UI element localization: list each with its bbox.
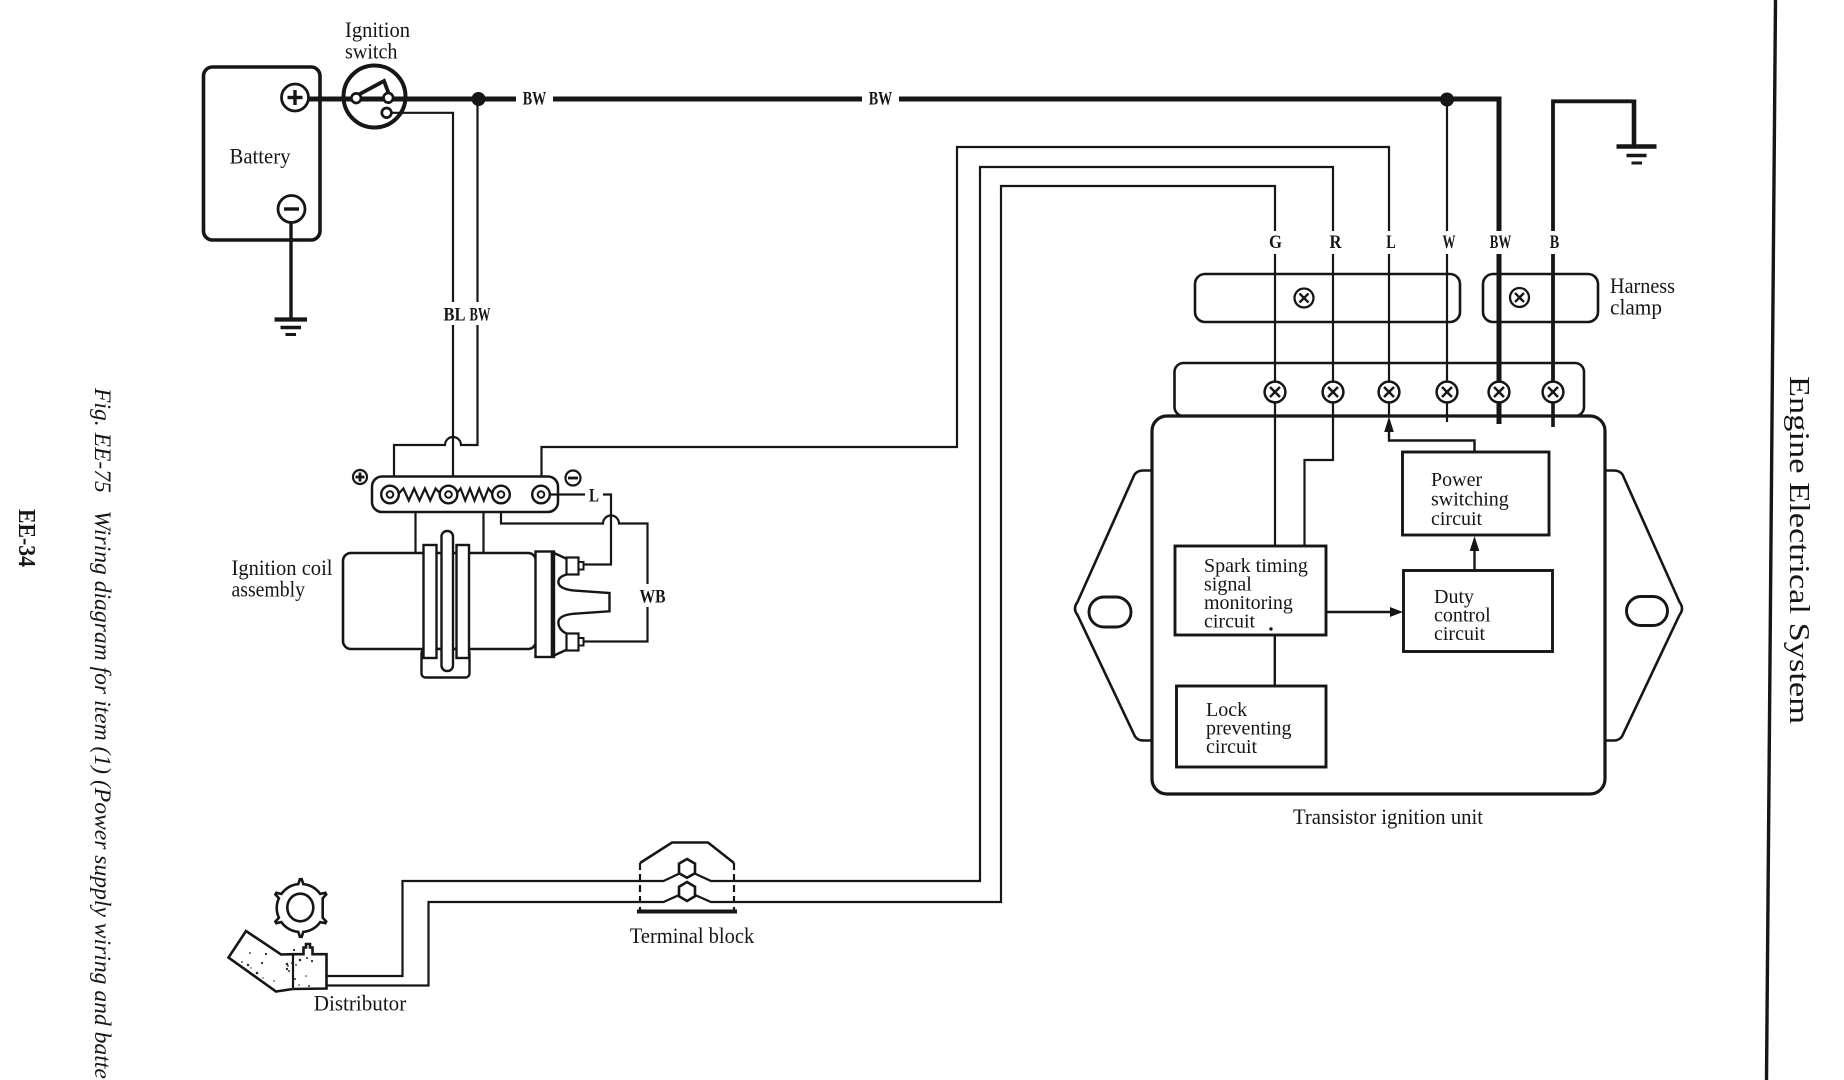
label: BW on main line (second) [862,87,899,109]
svg-text:BW: BW [470,306,491,326]
wire: BW thick vertical down to unit BW terminal [1497,99,1502,382]
svg-text:Transistor ignition unit: Transistor ignition unit [1293,804,1483,829]
svg-text:B: B [1550,233,1560,253]
harness clamp 2 [1483,274,1598,322]
svg-text:BL: BL [444,306,466,326]
wire: main BW line from battery + through ignition switch to top right [309,97,1502,102]
wire: BL from switch lower contact down to resistor terminal 2 [388,113,453,476]
coil cap flange [536,552,555,658]
svg-text:circuit: circuit [1204,611,1256,633]
ground (top right) [1617,144,1657,148]
svg-text:BW: BW [523,90,547,110]
left flange oval hole [1089,597,1131,627]
label: WB [635,584,670,607]
spark timing signal monitoring circuit box [1175,546,1326,635]
coil bottom plate [422,649,470,678]
svg-text:clamp: clamp [1610,295,1662,320]
coil body [343,553,536,649]
svg-text:circuit: circuit [1206,736,1258,758]
svg-text:circuit: circuit [1434,623,1486,645]
clamp screw 1 [1295,289,1314,308]
right flange oval hole [1627,597,1668,626]
resistor R1 zigzag [398,489,441,501]
label: L at resistor [585,483,603,505]
svg-text:circuit: circuit [1431,508,1483,530]
svg-text:EE-34: EE-34 [13,509,39,567]
terminal 3 [492,486,510,504]
wire: battery negative to ground [289,223,292,319]
wire: spark timing to lock preventing [1274,635,1276,686]
wire: power switching to L terminal with arrow [1389,431,1475,452]
harness clamp 1 [1195,274,1460,322]
ignition switch U1 [344,66,406,128]
wire: BW vertical from junction, left along y445 with hop over BL, down to resistor terminal 1 [394,99,478,476]
terminal block nut 2 [679,882,695,901]
wire: G net from distributor via terminal block up to unit G terminal [327,186,1275,986]
distributor [229,931,327,992]
transistor ignition unit box [1152,416,1605,794]
svg-text:switch: switch [345,39,398,64]
arrow: duty control to power switching [1473,547,1475,571]
svg-text:R: R [1330,233,1343,253]
unit terminal G [1265,382,1286,403]
svg-text:Distributor: Distributor [314,991,407,1016]
terminal 2 [440,486,458,504]
ground (battery) [275,317,308,321]
battery + terminal [282,84,309,111]
svg-text:G: G [1269,233,1282,253]
battery - terminal [278,196,305,223]
svg-text:BW: BW [869,90,893,110]
terminal block nut 1 [679,859,695,878]
terminal stubs [1446,403,1448,423]
resistor R2 zigzag [456,489,493,501]
label: BW on main line (first) [516,87,553,109]
transistor unit right flange [1605,471,1682,741]
coil - bolt [567,634,579,651]
arrow: spark timing to duty control [1326,611,1394,613]
svg-text:W: W [1443,233,1456,253]
minus symbol at resistor bar [566,471,581,486]
unit terminal B [1543,382,1564,403]
coil + bolt [567,558,579,575]
terminal 4 [532,486,550,504]
junction dot (BW drop) [472,92,486,106]
coil center strap [442,531,454,671]
wire: B net from unit B terminal up and to ground [1553,101,1632,381]
terminal block [640,843,734,864]
battery [204,67,321,240]
wire code labels G R L W BW B [1264,231,1286,254]
svg-text:BW: BW [1490,233,1512,253]
wire: R net from distributor via terminal block up to unit R terminal [327,167,1333,976]
coil band A [424,545,437,658]
wire: WB net from resistor terminal 3 down, right with hop over L, down to coil - bolt [501,512,648,642]
wire: W net from junction down to unit W terminal [1446,99,1448,382]
resistor bar (ignition coil resistor) [372,477,558,513]
svg-text:assembly: assembly [232,577,306,602]
distributor cam [275,879,326,937]
svg-text:Fig. EE-75 Wiring diagram fo: Fig. EE-75 Wiring diagram for item (1) (… [90,387,115,1080]
unit terminal BW [1489,382,1510,403]
unit terminal strip [1175,363,1585,416]
wire: L net from resistor terminal 4 up, right, up and to unit L terminal [542,147,1390,476]
clamp screw 2 [1510,288,1529,307]
wire: L from terminal 4 to coil + bolt [550,495,611,565]
svg-text:Engine Electrical System: Engine Electrical System [1783,376,1814,724]
junction dot (W drop) [1440,93,1454,107]
svg-text:Terminal block: Terminal block [630,923,755,948]
unit terminal L [1379,382,1400,403]
svg-text:WB: WB [640,588,666,608]
svg-text:Battery: Battery [230,144,291,169]
duty control circuit box [1404,571,1553,652]
coil band B [457,545,470,658]
svg-text:L: L [1386,233,1396,253]
wire: G inside unit to spark timing box [1274,403,1276,547]
coil cap profile [554,553,610,656]
wire: R inside unit stepping to spark timing box [1305,403,1334,547]
right page rule [1767,0,1776,1080]
unit terminal W [1437,382,1458,403]
lock preventing circuit box [1177,686,1327,767]
power switching circuit box [1403,452,1550,535]
plus symbol at resistor bar [353,470,367,484]
svg-text:L: L [589,487,599,507]
coil mounting posts [414,512,416,553]
unit terminal R [1323,382,1344,403]
transistor unit left flange [1075,471,1152,741]
label: BL BW pair [439,302,493,325]
terminal 1 [381,486,399,504]
